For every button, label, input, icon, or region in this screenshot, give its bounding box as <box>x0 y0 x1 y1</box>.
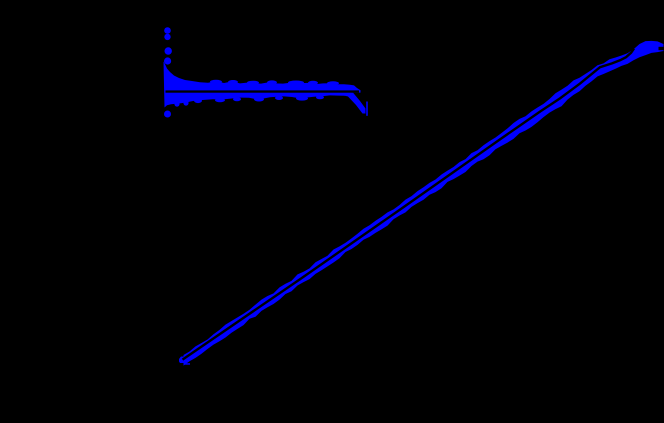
top subplot: scatter texture bumps on band top edge <box>210 80 339 85</box>
top subplot: main scatter band (funnel) <box>164 62 361 108</box>
top subplot: right-end vertical error bar <box>366 102 368 116</box>
top subplot: black reference line over band <box>166 90 360 92</box>
main diagonal: full band (two lines rendered as band + black gap) <box>184 41 664 366</box>
main diagonal: start tick blob <box>179 357 185 364</box>
main diagonal: start dash <box>184 363 191 365</box>
main diagonal: black gap line between the two curves <box>183 49 635 360</box>
top subplot: right-end dive wedge <box>344 93 366 114</box>
blob notch at right tip <box>659 47 664 50</box>
top subplot: left column scatter dots <box>164 27 172 117</box>
top subplot: small lumps below band <box>174 96 324 107</box>
